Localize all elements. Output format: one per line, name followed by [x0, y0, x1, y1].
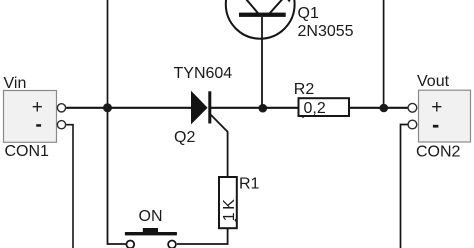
resistor R2 body: [299, 98, 350, 116]
pin 1 (+) of CON1: [57, 104, 65, 112]
wire: CON1 - return to bottom edge: [66, 125, 73, 248]
svg-text:TYN604: TYN604: [174, 65, 233, 82]
wire: Q2 cathode to node B: [211, 107, 263, 109]
wire: node A to thyristor anode: [108, 107, 194, 109]
svg-text:R1: R1: [239, 176, 260, 193]
wire: top rail down to node C: [383, 0, 385, 108]
wire: R1 bottom to pushbutton right terminal: [177, 228, 228, 244]
pin 2 (-) of CON2: [408, 120, 417, 129]
junction node A: [103, 103, 112, 112]
svg-text:+: +: [32, 97, 43, 118]
svg-text:ON: ON: [139, 208, 163, 225]
svg-text:Q2: Q2: [174, 129, 195, 146]
junction node B: [259, 104, 268, 113]
connector CON2 body: [419, 90, 471, 142]
wire: Q1 base down to node B: [261, 17, 263, 108]
svg-text:CON1: CON1: [5, 143, 50, 160]
pin 1 (+) of CON2: [408, 103, 417, 112]
Q1 collector lead: [246, 0, 258, 14]
wire: node A down to pushbutton left terminal: [108, 108, 126, 244]
svg-text:1K: 1K: [221, 197, 238, 222]
transistor Q1 body circle: [226, 0, 295, 39]
wire: top rail down through node A: [107, 0, 109, 108]
pushbutton left terminal: [126, 241, 134, 248]
wire: CON1 + to node A: [66, 107, 107, 109]
label - of CON1 pin 2: [36, 124, 41, 127]
Q1 emitter arrowhead (cut at top edge): [287, 0, 291, 2]
thyristor Q2 cathode bar: [208, 91, 211, 123]
pin origin dot of R2: [302, 115, 305, 118]
label - of CON2 pin 2: [433, 125, 439, 128]
junction node C: [380, 104, 389, 113]
svg-text:R2: R2: [294, 81, 315, 98]
wire: Q2 gate down to R1: [211, 115, 228, 177]
svg-text:2N3055: 2N3055: [298, 23, 354, 40]
pushbutton right terminal: [168, 241, 176, 248]
svg-text:Vout: Vout: [417, 73, 450, 90]
svg-text:Vin: Vin: [4, 75, 27, 92]
resistor R1 body: [219, 177, 237, 228]
wire: node B to R2 left: [263, 107, 299, 109]
svg-text:Q1: Q1: [298, 5, 319, 22]
wire: CON2 - return to bottom edge: [401, 125, 408, 248]
Q1 emitter lead: [270, 0, 283, 14]
svg-text:CON2: CON2: [416, 143, 461, 160]
svg-text:+: +: [431, 97, 442, 118]
pin origin dot of R1: [235, 219, 238, 222]
connector CON1 body: [4, 91, 57, 143]
svg-text:0,2: 0,2: [304, 100, 326, 117]
pin 2 (-) of CON1: [57, 121, 65, 129]
Q1 base bar: [239, 13, 286, 17]
thyristor Q2 anode triangle: [192, 92, 207, 123]
pushbutton actuator bar: [125, 232, 177, 235]
pushbutton actuator nub: [143, 228, 158, 232]
wire: R2 right to CON2 + through node C: [349, 107, 408, 109]
